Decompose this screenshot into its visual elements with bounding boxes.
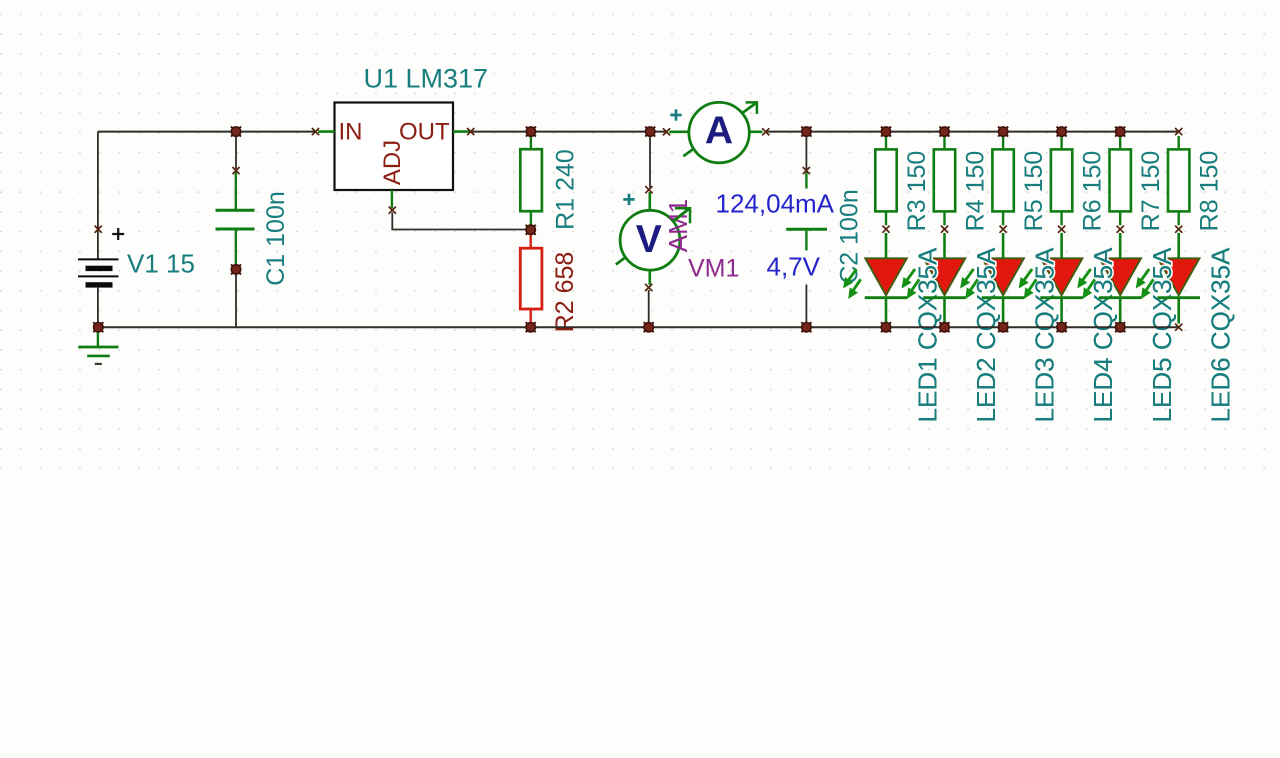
node R1/R2/ADJ junction xyxy=(526,225,536,235)
pin OUT xyxy=(467,128,474,135)
ground xyxy=(78,329,118,364)
svg-text:U1 LM317: U1 LM317 xyxy=(364,64,489,94)
LED D5 triangle xyxy=(1100,258,1141,295)
pin C2 top xyxy=(803,167,810,174)
LED3 leads and cathode bar xyxy=(982,233,1025,324)
wire voltmeter top xyxy=(649,132,651,188)
pin top rail end xyxy=(1175,128,1182,135)
pin R4/LED2 junction xyxy=(941,226,948,233)
wire ADJ net xyxy=(392,213,530,230)
svg-text:AM1: AM1 xyxy=(663,199,693,252)
resistor R6 xyxy=(1051,136,1072,225)
wire bottom rail xyxy=(98,326,1179,328)
pin ADJ xyxy=(389,207,396,214)
wire top rail OUT to ammeter xyxy=(471,131,667,133)
label AM1 (rotated) xyxy=(663,199,693,252)
svg-text:R5 150: R5 150 xyxy=(1020,151,1048,232)
LED2 leads and cathode bar xyxy=(923,233,966,324)
node LED branch bottom junction xyxy=(1057,322,1067,332)
pin R8/LED6 junction xyxy=(1175,226,1182,233)
LED1 emission arrows xyxy=(843,269,861,299)
ammeter AM1 xyxy=(669,102,762,162)
pin R3/LED1 junction xyxy=(882,226,889,233)
svg-text:LED2 CQX35A: LED2 CQX35A xyxy=(971,247,1001,423)
pin battery plus xyxy=(95,226,102,233)
node R2 bottom junction xyxy=(526,322,536,332)
pin voltmeter bottom xyxy=(645,284,652,291)
svg-text:4,7V: 4,7V xyxy=(767,252,821,282)
label LED2 CQX35A (rotated) xyxy=(971,247,1001,423)
node LED branch bottom junction xyxy=(940,322,950,332)
resistor R4 xyxy=(934,136,955,225)
svg-text:V1 15: V1 15 xyxy=(127,249,195,279)
resistor R7 xyxy=(1110,136,1131,225)
label R3 150 (rotated) xyxy=(903,151,931,232)
svg-text:A: A xyxy=(705,110,733,153)
LED1 leads and cathode bar xyxy=(865,233,908,324)
label LED5 CQX35A (rotated) xyxy=(1147,247,1177,423)
svg-text:IN: IN xyxy=(339,119,363,146)
label LED3 CQX35A (rotated) xyxy=(1030,247,1060,423)
LED6 leads and cathode bar xyxy=(1157,233,1200,324)
node C2 bottom junction xyxy=(801,322,811,332)
svg-text:OUT: OUT xyxy=(399,119,450,146)
svg-text:ADJ: ADJ xyxy=(379,140,406,185)
wire left vertical from top rail to battery xyxy=(97,132,99,260)
label C2 100n (rotated) xyxy=(836,189,864,284)
resistor R2 xyxy=(520,235,542,324)
ammeter plus xyxy=(670,109,681,120)
label LED1 CQX35A (rotated) xyxy=(913,247,943,423)
pin R5/LED3 junction xyxy=(1000,226,1007,233)
LED D1 triangle xyxy=(865,258,906,295)
pin voltmeter top xyxy=(645,186,652,193)
label R5 150 (rotated) xyxy=(1020,151,1048,232)
svg-text:R1 240: R1 240 xyxy=(552,149,580,230)
node LED branch bottom junction xyxy=(881,322,891,332)
node LED branch bottom junction xyxy=(998,322,1008,332)
svg-text:LED3 CQX35A: LED3 CQX35A xyxy=(1030,247,1060,423)
label U1 LM317 xyxy=(360,63,488,94)
pin ammeter right xyxy=(762,128,769,135)
node LED branch top junction xyxy=(940,127,950,137)
value 124,04mA xyxy=(711,189,835,219)
svg-text:VM1: VM1 xyxy=(688,255,739,283)
capacitor C2 xyxy=(786,172,827,255)
label R8 150 (rotated) xyxy=(1196,151,1224,232)
svg-text:R7 150: R7 150 xyxy=(1137,151,1165,232)
svg-text:LED4 CQX35A: LED4 CQX35A xyxy=(1088,247,1118,423)
node LED branch top junction xyxy=(998,127,1008,137)
node LED branch top junction xyxy=(881,127,891,137)
pin R6/LED4 junction xyxy=(1058,226,1065,233)
label R4 150 (rotated) xyxy=(962,151,990,232)
node LED branch top junction xyxy=(1057,127,1067,137)
svg-text:LED6 CQX35A: LED6 CQX35A xyxy=(1205,247,1235,423)
wire voltmeter bottom to rail xyxy=(648,290,650,327)
op-amp/regulator U1 LM317 box xyxy=(318,103,470,209)
svg-text:R3 150: R3 150 xyxy=(903,151,931,232)
node R1 top junction xyxy=(526,127,536,137)
pin R7/LED5 junction xyxy=(1117,226,1124,233)
node C1 top junction xyxy=(231,127,241,137)
node LED branch top junction xyxy=(1115,127,1125,137)
LED D4 triangle xyxy=(1041,258,1082,295)
wire top rail left segment xyxy=(98,131,316,133)
wire C2 bottom to rail xyxy=(805,255,807,327)
svg-text:C1 100n: C1 100n xyxy=(262,191,290,286)
wire battery minus to bottom rail xyxy=(97,288,99,328)
label R6 150 (rotated) xyxy=(1079,151,1107,232)
label R7 150 (rotated) xyxy=(1137,151,1165,232)
voltmeter VM1 xyxy=(616,192,689,285)
wire C1 bottom to rail xyxy=(235,269,237,327)
LED D2 triangle xyxy=(924,258,965,295)
node battery/ground junction xyxy=(93,322,103,332)
resistor R8 xyxy=(1168,136,1189,225)
LED D6 triangle xyxy=(1158,258,1199,295)
LED3 emission arrows xyxy=(960,269,978,299)
value 4,7V xyxy=(762,251,823,285)
label LED6 CQX35A (rotated) xyxy=(1205,247,1235,423)
resistor R5 xyxy=(992,136,1013,225)
node ammeter/voltmeter junction xyxy=(645,127,655,137)
pin bottom rail end xyxy=(1175,324,1182,331)
node voltmeter bottom junction xyxy=(644,322,654,332)
LED5 leads and cathode bar xyxy=(1099,233,1142,324)
label R1 240 (rotated) xyxy=(552,149,580,230)
resistor R3 xyxy=(875,136,896,225)
label LED4 CQX35A (rotated) xyxy=(1088,247,1118,423)
ammeter arrow head xyxy=(746,102,757,114)
label R2 658 (rotated) xyxy=(551,252,579,333)
svg-text:R6 150: R6 150 xyxy=(1079,151,1107,232)
node LED branch bottom junction xyxy=(1115,322,1125,332)
LED5 emission arrows xyxy=(1077,269,1095,299)
LED D3 triangle xyxy=(982,258,1023,295)
wire top rail ammeter to end xyxy=(766,131,1179,133)
pin C1 top xyxy=(232,167,239,174)
resistor R1 xyxy=(520,136,542,225)
LED4 leads and cathode bar xyxy=(1040,233,1083,324)
svg-text:LED1 CQX35A: LED1 CQX35A xyxy=(913,247,943,423)
wire C1 top xyxy=(235,132,237,169)
node C2 top junction xyxy=(801,127,811,137)
svg-text:R8 150: R8 150 xyxy=(1196,151,1224,232)
svg-text:R2 658: R2 658 xyxy=(551,252,579,333)
wire C2 top xyxy=(805,132,807,169)
svg-text:R4 150: R4 150 xyxy=(962,151,990,232)
LED2 emission arrows xyxy=(902,269,920,299)
voltmeter plus xyxy=(623,194,634,205)
grid dots xyxy=(0,0,1280,487)
voltmeter arrow over label xyxy=(674,208,691,223)
battery V1 xyxy=(78,228,124,288)
pin ammeter left xyxy=(663,128,670,135)
svg-text:V: V xyxy=(636,218,662,261)
node C1 bottom junction xyxy=(231,264,241,274)
svg-text:124,04mA: 124,04mA xyxy=(716,189,835,219)
svg-text:C2 100n: C2 100n xyxy=(836,189,864,284)
LED6 emission arrows xyxy=(1136,269,1154,299)
svg-text:LED5 CQX35A: LED5 CQX35A xyxy=(1147,247,1177,423)
LED4 emission arrows xyxy=(1019,269,1037,299)
pin label ADJ (rotated) xyxy=(379,140,406,185)
pin IN xyxy=(312,128,319,135)
label V1 15 xyxy=(124,249,200,280)
label C1 100n (rotated) xyxy=(262,191,290,286)
capacitor C1 xyxy=(216,172,255,266)
